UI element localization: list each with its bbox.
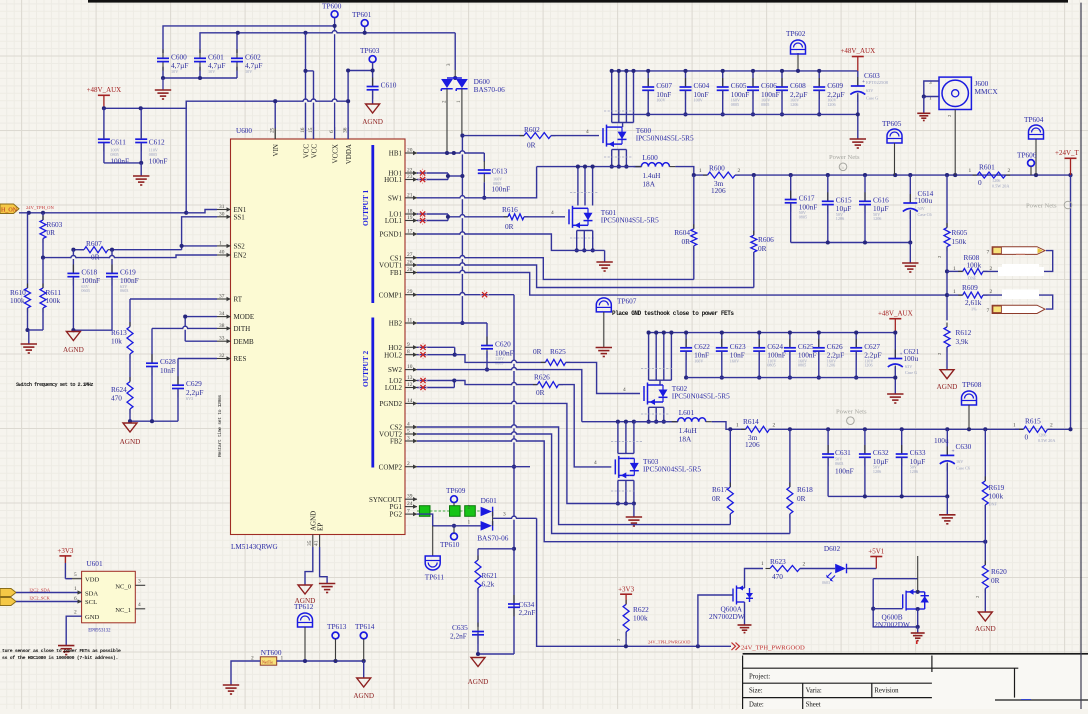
resistor (944, 228, 950, 247)
testpoint TP605 (887, 129, 902, 143)
wire C600 top rail (163, 26, 335, 53)
U600 pin 21 SW1 (405, 197, 417, 199)
capacitor (827, 445, 829, 454)
svg-text:29: 29 (407, 289, 413, 295)
svg-text:C628: C628 (160, 357, 176, 366)
resistor (963, 292, 983, 298)
U600 pin 18 LO1 (405, 213, 417, 215)
wire Q600A drain (745, 569, 764, 589)
svg-text:0R: 0R (991, 576, 1000, 585)
no-ERC mark (420, 177, 425, 182)
svg-text:Case C6: Case C6 (956, 466, 970, 471)
wire SW1 row (417, 167, 537, 198)
svg-text:3: 3 (407, 436, 410, 442)
ground AGND (357, 678, 371, 687)
svg-text:1206: 1206 (745, 440, 760, 449)
wire 48V rail 2 (649, 332, 896, 334)
wire TP601 stem (364, 27, 366, 33)
wire AGND pin (305, 547, 313, 585)
svg-text:1206: 1206 (1038, 433, 1046, 438)
svg-text:PGND2: PGND2 (379, 400, 402, 408)
svg-text:RT: RT (234, 296, 243, 304)
svg-text:6,2k: 6,2k (482, 580, 495, 589)
svg-text:100u: 100u (934, 436, 949, 445)
svg-text:R607: R607 (86, 239, 102, 248)
svg-text:DITH: DITH (234, 325, 251, 333)
wire FB1 sense (417, 273, 947, 296)
svg-text:TP611: TP611 (425, 573, 445, 582)
svg-text:+24V_T: +24V_T (1055, 149, 1080, 157)
resistor R621 (477, 549, 479, 560)
svg-text:8: 8 (407, 349, 410, 355)
capacitor C601 (199, 49, 201, 58)
wire J600 center (954, 110, 956, 176)
svg-text:1206: 1206 (992, 178, 1000, 183)
testpoint TP612 (298, 613, 313, 627)
svg-text:Case C6: Case C6 (918, 212, 932, 217)
svg-text:0R: 0R (47, 228, 56, 237)
svg-text:20: 20 (407, 148, 413, 154)
capacitor None (857, 77, 859, 86)
svg-text:VDD: VDD (85, 577, 100, 584)
svg-text:63V: 63V (905, 364, 912, 369)
svg-text:I2C2_SCK: I2C2_SCK (29, 596, 50, 601)
resistor (977, 172, 1006, 178)
svg-text:C613: C613 (492, 167, 508, 176)
U600 pin 39 SYNCOUT (405, 498, 417, 500)
svg-text:35: 35 (307, 540, 313, 546)
inductor L601 (634, 421, 678, 423)
svg-text:AGND: AGND (468, 678, 489, 686)
svg-text:EP: EP (316, 523, 324, 531)
svg-text:COMP2: COMP2 (379, 463, 403, 471)
svg-text:1: 1 (953, 289, 956, 295)
capacitor C621 electrolytic (894, 333, 896, 359)
capacitor C619 wires (111, 250, 113, 274)
svg-text:1: 1 (953, 266, 956, 272)
svg-text:BAS70-06: BAS70-06 (474, 85, 506, 94)
svg-text:10V: 10V (245, 69, 252, 74)
svg-text:SS1: SS1 (234, 213, 246, 221)
resistor (1024, 426, 1048, 432)
svg-text:LOL2: LOL2 (385, 384, 403, 392)
svg-text:C608: C608 (790, 81, 806, 90)
testpoint TP607 (596, 298, 611, 312)
resistor R603 (42, 213, 44, 220)
no-ERC mark (420, 211, 425, 216)
svg-text:Date:: Date: (749, 702, 764, 709)
svg-text:LM5143QRWG: LM5143QRWG (231, 543, 278, 551)
svg-text:TP608: TP608 (962, 380, 982, 389)
capacitor C617 (790, 175, 792, 199)
svg-text:VIN: VIN (272, 144, 280, 156)
wire +24V vertical (1070, 175, 1072, 429)
svg-text:28: 28 (407, 267, 413, 273)
svg-text:7: 7 (987, 250, 990, 256)
wire 48V rail (104, 101, 275, 108)
resistor (963, 268, 983, 274)
testpoint TP614 (360, 632, 367, 639)
power +3V3 (620, 593, 632, 595)
svg-text:100V: 100V (694, 98, 703, 103)
U600 pin 30 SS1 (217, 216, 231, 218)
svg-text:7: 7 (987, 308, 990, 314)
diode D601 BAS70-06 (481, 507, 492, 517)
testpoint TP608 (962, 391, 977, 405)
svg-text:1%: 1% (971, 307, 977, 312)
ground (155, 89, 171, 91)
svg-text:1206: 1206 (873, 216, 881, 221)
capacitor (477, 623, 479, 632)
svg-text:L600: L600 (642, 153, 658, 162)
capacitor C606 leads (752, 71, 754, 87)
wire R621 branch (478, 548, 514, 550)
svg-text:D602: D602 (824, 544, 841, 553)
ground (596, 347, 612, 349)
ground (133, 175, 149, 177)
capacitor C617 (790, 191, 792, 200)
svg-text:30: 30 (219, 211, 225, 217)
svg-text:Power Nets: Power Nets (836, 409, 867, 416)
U600 pin 4 CS2 (405, 426, 417, 428)
ground (917, 112, 930, 114)
svg-text:0R: 0R (536, 388, 545, 397)
svg-text:SS2: SS2 (234, 243, 246, 251)
svg-text:0.5W 20A: 0.5W 20A (992, 184, 1009, 189)
wire LO2 join (417, 380, 454, 382)
svg-text:0805: 0805 (798, 363, 806, 368)
svg-text:2: 2 (407, 461, 410, 467)
svg-text:I2C2_SDA: I2C2_SDA (29, 588, 50, 593)
ground (850, 138, 866, 140)
resistor R611 (42, 258, 44, 288)
capacitor (483, 161, 485, 170)
svg-text:1: 1 (699, 168, 702, 174)
wire T603 sources (617, 480, 619, 503)
svg-text:0603: 0603 (81, 288, 89, 293)
no-ERC mark (482, 292, 487, 297)
svg-text:AGND: AGND (353, 692, 374, 700)
resistor (537, 382, 558, 388)
svg-text:0805: 0805 (799, 214, 807, 219)
wire J600 shield (924, 81, 939, 97)
svg-text:0R: 0R (533, 347, 542, 356)
svg-text:3: 3 (503, 512, 506, 518)
transistor T603 (615, 456, 639, 479)
svg-text:HB2: HB2 (389, 320, 403, 328)
svg-text:0R: 0R (681, 237, 690, 246)
wire T602 drains (648, 333, 650, 381)
svg-text:C627: C627 (864, 342, 880, 351)
svg-text:6: 6 (74, 596, 77, 602)
capacitor C608 leads (781, 71, 783, 87)
wire cap row2 bottom (686, 377, 895, 379)
svg-text:LOL1: LOL1 (385, 217, 403, 225)
svg-text:NC_0: NC_0 (115, 584, 131, 591)
green mask squares (417, 510, 481, 512)
wire EP pin (320, 547, 328, 584)
capacitor C623 (721, 339, 723, 348)
resistor (982, 565, 988, 589)
testpoint TP600 (331, 11, 338, 18)
svg-text:4: 4 (138, 602, 141, 608)
svg-text:0805: 0805 (731, 102, 739, 107)
svg-text:470: 470 (111, 394, 122, 403)
resistor R618 (789, 429, 791, 487)
svg-text:IPC50N04S5L-5R5: IPC50N04S5L-5R5 (601, 216, 659, 225)
wire PG2 row (417, 514, 481, 526)
U600 pin 7 PG2 (405, 513, 417, 515)
U600 pin 25 VIN (274, 127, 276, 139)
transistor Q600A (733, 586, 753, 605)
red tick (916, 641, 918, 645)
svg-text:FB2: FB2 (390, 438, 403, 446)
wire T601 source rail (576, 231, 578, 251)
svg-text:3: 3 (138, 579, 141, 585)
ground (319, 583, 335, 585)
wire SCL (16, 601, 82, 603)
capacitor C620 (486, 323, 488, 346)
wire R608 out (983, 251, 1053, 272)
wire SW node rail (537, 166, 642, 168)
transistor Q600B (873, 578, 918, 580)
svg-text:1206: 1206 (864, 363, 872, 368)
wire HO2 join (417, 346, 455, 348)
svg-text:2: 2 (468, 505, 471, 511)
svg-text:100nF: 100nF (110, 157, 129, 166)
svg-text:HB1: HB1 (389, 150, 403, 158)
svg-text:22: 22 (407, 168, 413, 174)
ground (58, 645, 74, 647)
ground (21, 343, 37, 345)
svg-text:IPC50N04S5L-5R5: IPC50N04S5L-5R5 (643, 465, 701, 474)
ground AGND (298, 585, 312, 594)
ground (626, 516, 642, 518)
resistor (508, 214, 524, 220)
capacitor C622 leads (685, 333, 687, 348)
svg-text:2: 2 (738, 168, 741, 174)
U600 pin 40 EN2 (217, 254, 231, 256)
wire +48V stem (103, 95, 105, 108)
testpoint TP601 (361, 20, 368, 27)
ground AGND (366, 104, 380, 113)
svg-text:AGND: AGND (362, 118, 383, 126)
svg-text:SCL: SCL (85, 599, 97, 606)
wire VDD (65, 578, 72, 580)
svg-text:HOL1: HOL1 (384, 176, 402, 184)
diode D602 LED (835, 564, 846, 574)
svg-text:32: 32 (219, 353, 225, 359)
svg-text:Power Nets: Power Nets (829, 154, 860, 161)
svg-text:19: 19 (407, 215, 413, 221)
svg-text:TP610: TP610 (440, 540, 460, 549)
svg-text:+: + (862, 79, 865, 85)
svg-text:TP604: TP604 (1024, 115, 1044, 124)
resistor (623, 604, 629, 632)
svg-text:ture sensor as close to power: ture sensor as close to power FETs as po… (2, 648, 121, 654)
svg-text:C626: C626 (827, 342, 843, 351)
svg-text:1: 1 (468, 520, 471, 526)
capacitor C630 electrolytic (946, 429, 948, 455)
svg-text:Project:: Project: (749, 674, 770, 681)
harness port upper (992, 247, 1045, 255)
resistor R609 (947, 294, 963, 296)
op-amp U601 body (82, 571, 136, 623)
svg-text:3,9k: 3,9k (956, 337, 969, 346)
harness port lower (992, 305, 1045, 313)
svg-text:ss of the HDC1080 is 1000000 (: ss of the HDC1080 is 1000000 (7-bit addr… (2, 655, 118, 661)
capacitor C622 (685, 339, 687, 348)
capacitor C608 (781, 78, 783, 87)
svg-text:C618: C618 (81, 267, 97, 276)
svg-text:10: 10 (407, 364, 413, 370)
capacitor C605 leads (722, 71, 724, 87)
svg-text:Restart time set to 120ms: Restart time set to 120ms (217, 395, 223, 457)
svg-text:C616: C616 (873, 195, 889, 204)
svg-text:13: 13 (407, 375, 413, 381)
U600 OUTPUT 2 bar (371, 318, 374, 468)
svg-text:470: 470 (772, 572, 783, 581)
inductor L601 (678, 418, 706, 422)
svg-text:2: 2 (773, 423, 776, 429)
svg-text:1206: 1206 (827, 363, 835, 368)
wire out1 cap gnd rail (791, 242, 911, 244)
svg-text:C611: C611 (110, 138, 126, 147)
svg-text:1: 1 (74, 586, 77, 592)
U600 pin 13 LO2 (405, 380, 417, 382)
resistor (770, 566, 800, 572)
svg-text:Place GND testhook close to po: Place GND testhook close to power FETs (612, 310, 734, 317)
capacitor C613 branch (483, 153, 485, 162)
svg-text:DNF: DNF (968, 276, 977, 281)
svg-text:C610: C610 (381, 81, 397, 90)
ground AGND (123, 423, 137, 432)
svg-text:MODE: MODE (234, 313, 255, 321)
U600 pin 22 HO1 (405, 172, 417, 174)
svg-text:4: 4 (594, 460, 597, 466)
ground (902, 262, 918, 264)
svg-text:2: 2 (990, 289, 993, 295)
wire HB2 row (417, 322, 487, 324)
resistor (944, 327, 950, 347)
U600 pin 14 PGND2 (405, 402, 417, 404)
power +24V_T (1065, 157, 1077, 159)
svg-text:+: + (952, 449, 955, 455)
U600 pin 11 HB2 (405, 322, 417, 324)
wire SW2 row (417, 370, 582, 422)
svg-text:AGND: AGND (937, 383, 958, 391)
wire D600 leads (446, 89, 448, 153)
svg-text:AGND: AGND (63, 346, 84, 354)
svg-text:100nF: 100nF (492, 185, 511, 194)
U600 pin 27 CS1 (405, 257, 417, 259)
wire T603 drains (617, 422, 619, 454)
svg-text:1206: 1206 (873, 469, 881, 474)
wire PGND2 (417, 403, 618, 503)
svg-text:160V: 160V (730, 358, 739, 363)
svg-text:C600: C600 (171, 52, 187, 61)
wire R626 to T603 gate (559, 385, 612, 467)
svg-text:R615: R615 (1025, 417, 1041, 426)
svg-text:11: 11 (407, 318, 412, 324)
svg-text:1206: 1206 (790, 102, 798, 107)
capacitor C607 (647, 78, 649, 87)
capacitor C623 leads (721, 333, 723, 348)
capacitor C633 (901, 429, 903, 454)
wire out rail 2 (769, 428, 1023, 430)
svg-text:TP613: TP613 (327, 622, 347, 631)
capacitor C606 (752, 78, 754, 87)
svg-text:2: 2 (803, 562, 806, 568)
svg-text:R612: R612 (956, 328, 972, 337)
svg-text:34: 34 (219, 311, 225, 317)
wire VDDA feed (275, 100, 348, 102)
wire VOUT2 sense (417, 434, 790, 534)
svg-text:C629: C629 (186, 379, 202, 388)
svg-text:Case G: Case G (905, 370, 917, 375)
svg-text:D601: D601 (481, 496, 498, 505)
svg-text:+48V_AUX: +48V_AUX (87, 86, 122, 94)
svg-text:IPC50N04S5L-5R5: IPC50N04S5L-5R5 (636, 134, 694, 143)
capacitor C604 leads (685, 71, 687, 87)
white patch over R609 net (1002, 290, 1039, 300)
svg-text:1: 1 (969, 168, 972, 174)
capacitor None (894, 350, 896, 359)
svg-text:27: 27 (407, 252, 413, 258)
wire MODE-DEMB tie (185, 316, 217, 318)
transistor T602 (644, 383, 668, 406)
port I2C2_SDA (0, 589, 16, 597)
svg-text:26: 26 (407, 260, 413, 266)
resistor (751, 235, 757, 252)
svg-text:2: 2 (1050, 423, 1053, 429)
wire NT600 left (231, 661, 260, 685)
svg-text:Switch frequency set to 2.1MHz: Switch frequency set to 2.1MHz (16, 382, 93, 388)
wire COMP1 (417, 294, 514, 296)
inductor L600 (641, 163, 669, 167)
svg-text:C604: C604 (694, 81, 710, 90)
svg-text:0603: 0603 (822, 580, 830, 585)
wire R609 out (983, 295, 1053, 309)
svg-text:7: 7 (407, 509, 410, 515)
svg-text:40: 40 (219, 250, 225, 256)
wire VIN drop (274, 101, 276, 128)
U600 pin 16 VCC (305, 127, 307, 139)
resistor R620 (984, 542, 986, 565)
svg-text:R617: R617 (712, 485, 728, 494)
svg-text:24V_TPH_ON: 24V_TPH_ON (26, 205, 55, 210)
resistor R619 (984, 429, 986, 481)
wire NT600 right (277, 660, 364, 662)
wire HB1 row (417, 152, 484, 154)
svg-text:R618: R618 (797, 485, 813, 494)
svg-text:FB1: FB1 (390, 269, 403, 277)
wire cap row bottom rail (611, 113, 858, 115)
svg-text:C609: C609 (827, 81, 843, 90)
resistor (40, 288, 46, 308)
svg-text:1: 1 (736, 423, 739, 429)
ground (887, 393, 903, 395)
no-ERC mark (420, 345, 425, 350)
capacitor C603 electrolytic (857, 71, 859, 86)
capacitor C627 (855, 339, 857, 348)
resistor (545, 359, 565, 365)
U600 pin 34 MODE (217, 316, 231, 318)
svg-text:1206: 1206 (836, 216, 844, 221)
svg-text:TP601: TP601 (352, 10, 372, 19)
svg-text:C617: C617 (799, 194, 815, 203)
U600 pin 32 RES (217, 358, 231, 360)
